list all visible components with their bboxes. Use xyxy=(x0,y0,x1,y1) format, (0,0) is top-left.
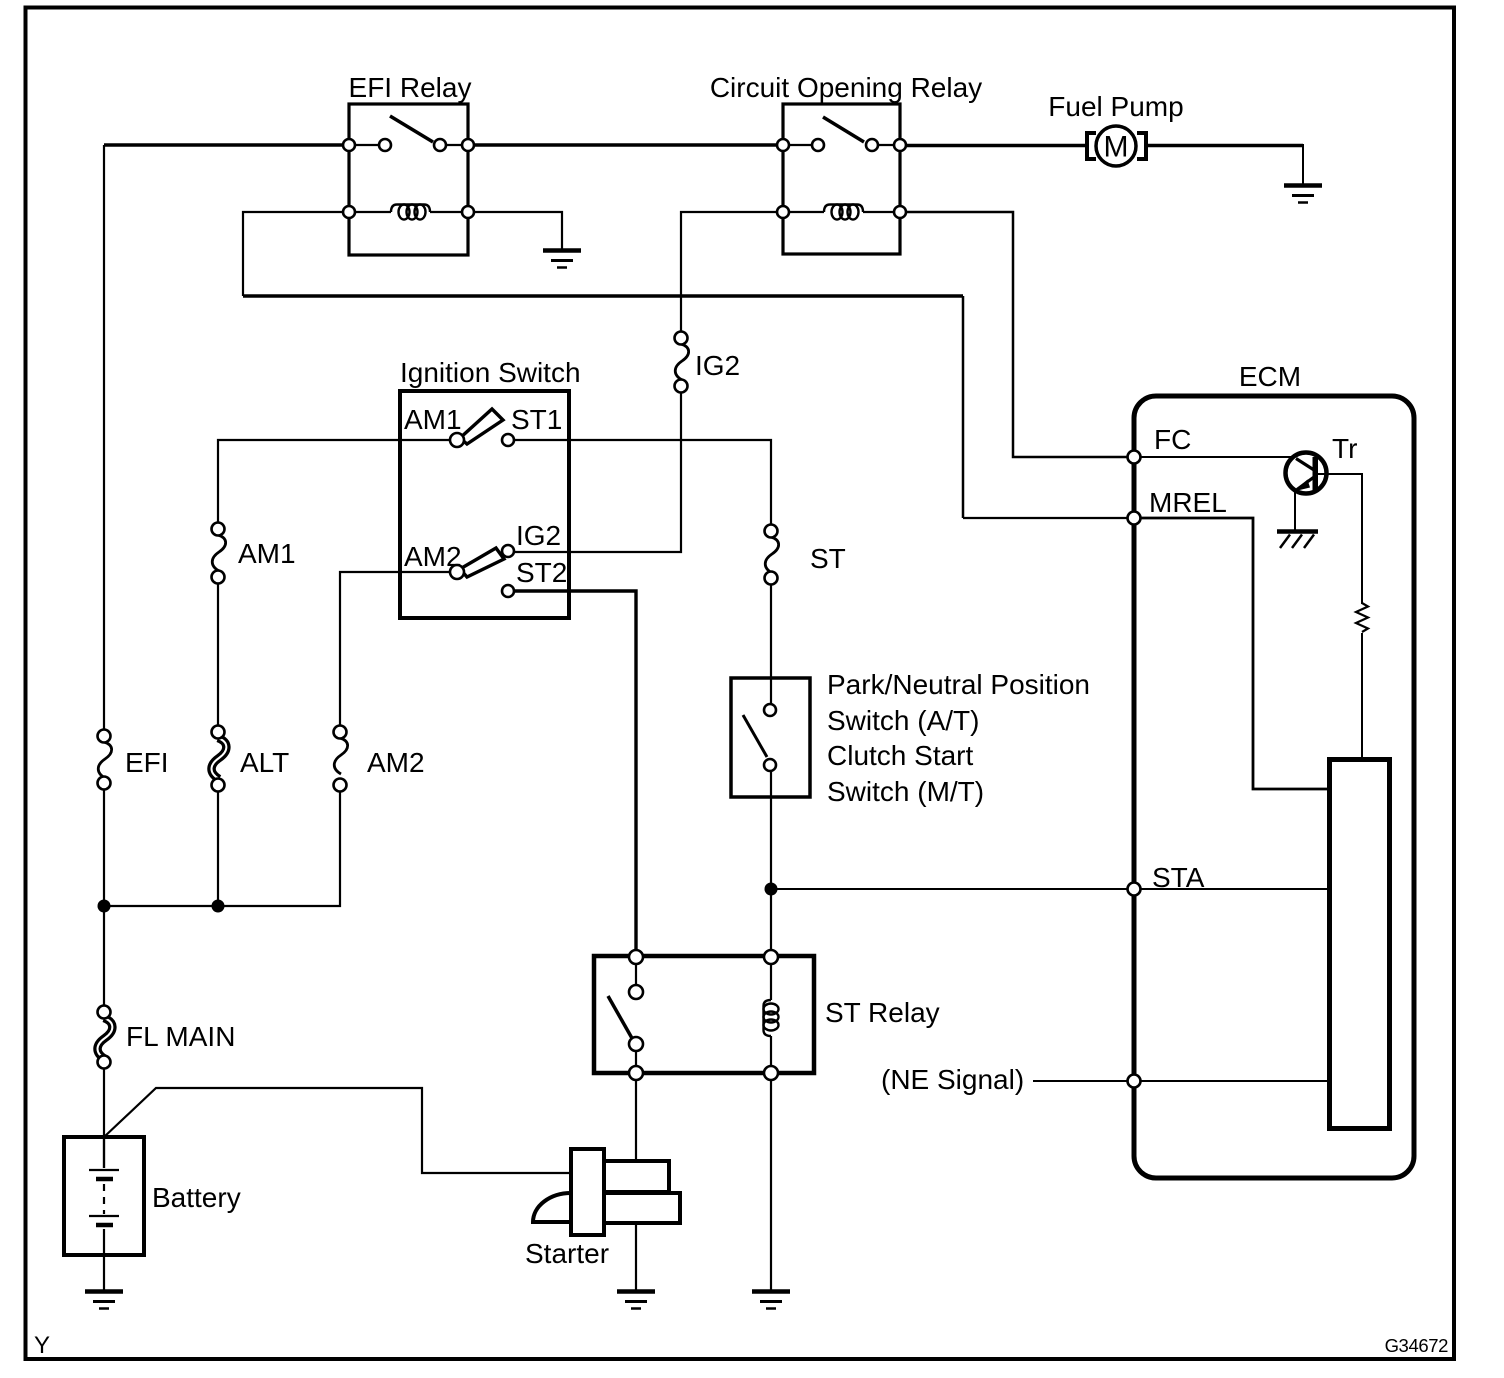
EFI relay coil xyxy=(391,205,430,220)
wire: transistor emitter to ground xyxy=(1294,492,1296,531)
starter motor body lower xyxy=(604,1193,680,1223)
svg-text:ALT: ALT xyxy=(240,747,289,778)
node junction ALT bus xyxy=(212,900,225,913)
wire: AM1 feed from ignition switch xyxy=(218,440,400,522)
wire: STA line to ECM xyxy=(771,888,1134,890)
wire: AM2 feed from ignition switch xyxy=(340,572,400,725)
svg-text:Battery: Battery xyxy=(152,1182,241,1213)
wire: MREL to ECM internal block xyxy=(1134,518,1327,789)
COR terminals xyxy=(777,139,906,218)
Fuel pump motor xyxy=(1087,126,1146,166)
wire: ST2 to ST relay x=636 xyxy=(514,591,636,957)
transistor Tr xyxy=(1286,453,1327,494)
svg-text:Ignition Switch: Ignition Switch xyxy=(400,357,581,388)
wire: EFI relay coil left to long bus y=296 to MREL xyxy=(243,212,349,296)
wire: main B+ feed y=145 from left bus to EFI Relay xyxy=(104,143,349,147)
COR switch blade xyxy=(823,117,864,142)
svg-text:Starter: Starter xyxy=(525,1238,609,1269)
svg-text:ST2: ST2 xyxy=(516,557,567,588)
ST Relay box xyxy=(594,956,814,1073)
ground: battery xyxy=(85,1292,123,1309)
ST relay switch blade xyxy=(608,996,633,1040)
wire: ST fuse to park/neutral switch xyxy=(770,585,772,704)
fuse IG2 xyxy=(675,332,741,393)
svg-text:IG2: IG2 xyxy=(695,350,740,381)
svg-text:Park/Neutral Position: Park/Neutral Position xyxy=(827,669,1090,700)
starter pinion housing xyxy=(533,1193,571,1222)
starter motor body upper xyxy=(604,1161,669,1192)
wire: AM1 fuse to ALT fuse x=218 xyxy=(217,584,219,725)
wire: left bus vertical x=104 xyxy=(103,145,105,1168)
svg-text:FC: FC xyxy=(1154,424,1191,455)
svg-text:FL MAIN: FL MAIN xyxy=(126,1021,235,1052)
ground: fuel pump xyxy=(1284,186,1322,203)
svg-text:Circuit Opening Relay: Circuit Opening Relay xyxy=(710,72,982,103)
ST relay internal wires xyxy=(636,964,771,1066)
wire: transistor collector to resistor to block xyxy=(1318,474,1362,757)
wire: EFI Relay to Circuit Opening Relay y=145 xyxy=(468,143,783,147)
EFI relay internal wires xyxy=(349,145,468,212)
svg-text:AM2: AM2 xyxy=(404,541,462,572)
svg-text:Y: Y xyxy=(34,1332,50,1359)
svg-text:(NE Signal): (NE Signal) xyxy=(881,1064,1024,1095)
wire: park/neutral switch to STA junction and ST relay xyxy=(770,771,772,957)
ground: starter xyxy=(617,1292,655,1309)
svg-text:ST: ST xyxy=(810,543,846,574)
wire: battery internal and to ground xyxy=(103,1137,105,1290)
wire: Fuel Pump to ground drop xyxy=(1146,144,1303,148)
fuse AM1 xyxy=(212,523,296,584)
svg-text:ST Relay: ST Relay xyxy=(825,997,940,1028)
node junction EFI bus xyxy=(98,900,111,913)
wire: NE signal line xyxy=(1033,1080,1327,1082)
svg-text:AM1: AM1 xyxy=(404,404,462,435)
park/neutral switch blade xyxy=(743,715,767,757)
wire: ST relay coil to ground xyxy=(770,1073,772,1290)
ST relay coil xyxy=(764,1000,779,1036)
fusible link ALT xyxy=(212,726,290,792)
fuse EFI xyxy=(98,730,169,790)
svg-text:Fuel Pump: Fuel Pump xyxy=(1048,91,1183,122)
ignition terminals xyxy=(450,433,514,597)
wire: EFI relay coil right to ground xyxy=(468,212,562,249)
ignition internal wires xyxy=(400,440,450,572)
wire: COR coil left to IG2 fuse column x=681 xyxy=(681,212,783,331)
resistor in ECM xyxy=(1356,603,1368,632)
EFI relay switch blade xyxy=(390,116,433,142)
EFI relay box xyxy=(349,104,468,255)
svg-text:Switch (M/T): Switch (M/T) xyxy=(827,776,984,807)
wire: AM2 fuse down to bus y=906 xyxy=(104,792,340,906)
svg-text:Clutch Start: Clutch Start xyxy=(827,740,973,771)
ECM box xyxy=(1134,396,1414,1178)
node STA junction xyxy=(765,883,778,896)
wire: ST relay to starter xyxy=(635,1073,637,1161)
svg-text:Switch (A/T): Switch (A/T) xyxy=(827,705,979,736)
wire: ST1 to ST fuse xyxy=(514,440,771,524)
ground: EFI relay coil xyxy=(543,251,581,268)
Park/Neutral position switch box xyxy=(731,678,810,797)
svg-text:AM2: AM2 xyxy=(367,747,425,778)
svg-text:M: M xyxy=(1104,131,1129,164)
ignition AM2 blade xyxy=(460,548,504,577)
Starter assembly xyxy=(533,1149,680,1235)
starter solenoid xyxy=(571,1149,604,1235)
svg-text:G34672: G34672 xyxy=(1385,1335,1449,1356)
wire: battery positive to starter solenoid xyxy=(104,1088,571,1173)
ground: transistor emitter (slanted) xyxy=(1277,532,1318,549)
Battery box xyxy=(64,1137,144,1255)
COR internal wires xyxy=(783,145,900,212)
Circuit Opening Relay box xyxy=(783,104,900,254)
Ignition switch box xyxy=(400,391,569,618)
COR coil xyxy=(824,205,863,220)
fuse ST xyxy=(765,525,846,585)
svg-text:Tr: Tr xyxy=(1332,433,1357,464)
park/neutral terminals xyxy=(764,704,776,771)
wire: starter to ground xyxy=(635,1223,637,1290)
ground: ST relay xyxy=(752,1292,790,1309)
ignition AM1 blade xyxy=(460,409,503,444)
svg-text:EFI: EFI xyxy=(125,747,169,778)
wire: Circuit Opening Relay to Fuel Pump y=146 xyxy=(900,144,1087,148)
EFI relay terminals xyxy=(343,139,474,218)
svg-text:ECM: ECM xyxy=(1239,361,1301,392)
svg-text:MREL: MREL xyxy=(1149,487,1227,518)
wire: FC to transistor base xyxy=(1134,456,1295,458)
wire: ALT fuse to junction xyxy=(217,792,219,906)
battery plates xyxy=(89,1170,119,1225)
ECM internal block xyxy=(1330,760,1390,1129)
svg-text:STA: STA xyxy=(1152,862,1205,893)
ECM pin circles xyxy=(1128,451,1141,1088)
ST relay terminals xyxy=(629,950,778,1080)
fuse AM2 xyxy=(334,726,425,792)
svg-text:IG2: IG2 xyxy=(516,520,561,551)
svg-text:ST1: ST1 xyxy=(511,404,562,435)
fusible link FL MAIN xyxy=(98,1006,236,1069)
svg-text:AM1: AM1 xyxy=(238,538,296,569)
wire: COR coil right down to FC xyxy=(900,212,1134,457)
svg-text:EFI Relay: EFI Relay xyxy=(349,72,472,103)
